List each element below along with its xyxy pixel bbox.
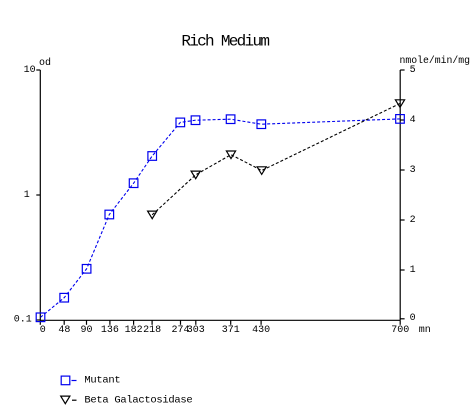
svg-text:1: 1 [410,265,416,276]
svg-text:od: od [39,57,51,69]
svg-text:0: 0 [410,313,416,324]
svg-text:4: 4 [410,115,416,126]
svg-text:mn: mn [419,325,431,336]
svg-text:303: 303 [187,325,205,336]
svg-text:Rich Medium: Rich Medium [181,32,269,50]
svg-text:182: 182 [125,325,143,336]
svg-text:90: 90 [80,325,92,336]
svg-text:371: 371 [222,325,240,336]
svg-text:430: 430 [252,325,270,336]
svg-text:0.1: 0.1 [14,315,32,326]
svg-text:5: 5 [410,65,416,76]
svg-text:Mutant: Mutant [84,375,120,387]
svg-text:700: 700 [391,325,409,336]
svg-text:2: 2 [410,215,416,226]
svg-text:Beta Galactosidase: Beta Galactosidase [84,395,192,405]
svg-text:3: 3 [410,165,416,176]
svg-text:1: 1 [24,190,30,201]
svg-text:218: 218 [143,325,161,336]
svg-text:136: 136 [101,325,119,336]
svg-text:0: 0 [40,325,46,336]
svg-text:48: 48 [58,325,70,336]
svg-text:10: 10 [24,65,36,76]
